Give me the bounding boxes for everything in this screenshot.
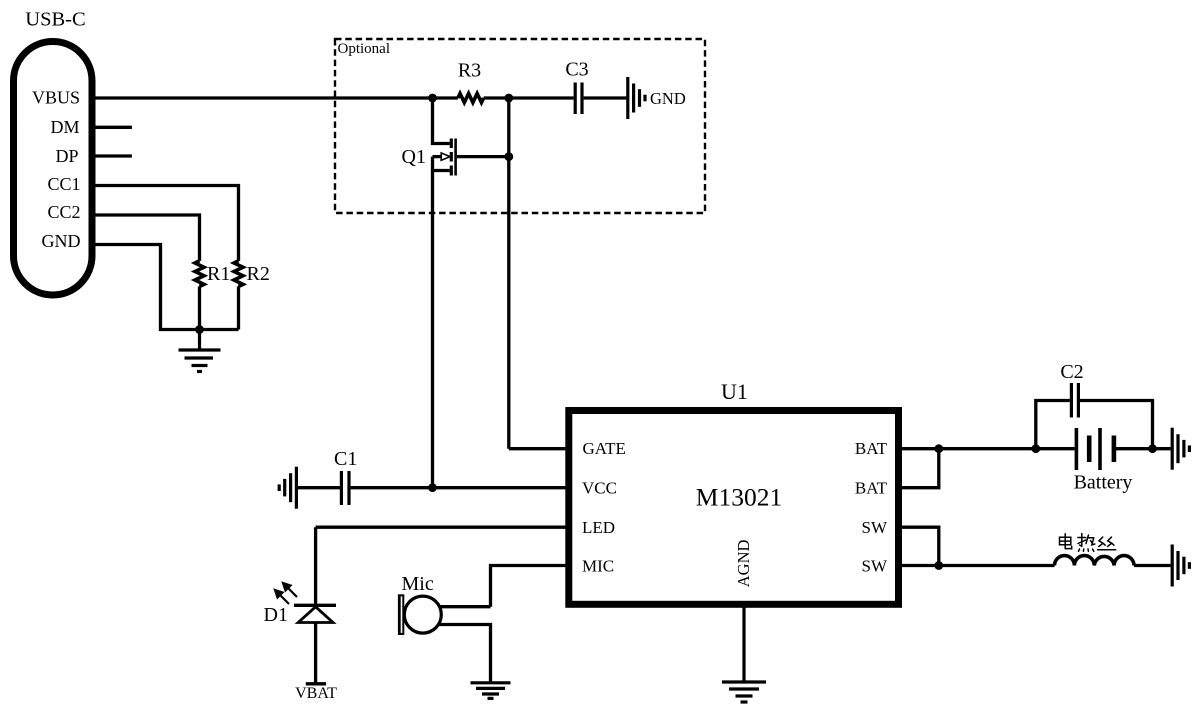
svg-text:SW: SW (862, 518, 888, 537)
svg-text:U1: U1 (721, 379, 748, 404)
svg-text:Mic: Mic (402, 573, 434, 595)
svg-text:DP: DP (55, 146, 78, 166)
svg-text:C1: C1 (334, 448, 357, 470)
svg-text:MIC: MIC (582, 556, 614, 575)
svg-text:Q1: Q1 (402, 146, 426, 168)
svg-text:Battery: Battery (1074, 472, 1133, 494)
svg-text:D1: D1 (264, 604, 288, 626)
svg-text:CC1: CC1 (47, 174, 80, 194)
svg-text:VBUS: VBUS (32, 88, 80, 108)
svg-text:GND: GND (650, 89, 686, 108)
svg-text:BAT: BAT (855, 479, 888, 498)
svg-text:Optional: Optional (338, 41, 391, 57)
svg-text:DM: DM (50, 117, 79, 137)
svg-text:AGND: AGND (734, 539, 753, 587)
svg-text:C2: C2 (1060, 361, 1083, 383)
svg-text:R2: R2 (247, 263, 270, 285)
svg-text:R1: R1 (207, 263, 230, 285)
svg-text:VBAT: VBAT (295, 685, 337, 702)
svg-text:LED: LED (582, 518, 615, 537)
svg-text:SW: SW (862, 556, 888, 575)
svg-text:USB-C: USB-C (25, 8, 85, 30)
svg-text:GND: GND (42, 231, 81, 251)
svg-text:M13021: M13021 (696, 483, 782, 512)
svg-text:GATE: GATE (583, 439, 626, 458)
svg-text:C3: C3 (565, 59, 588, 81)
svg-text:R3: R3 (458, 60, 481, 82)
svg-text:VCC: VCC (582, 479, 617, 498)
svg-text:BAT: BAT (855, 439, 888, 458)
svg-text:CC2: CC2 (47, 202, 80, 222)
